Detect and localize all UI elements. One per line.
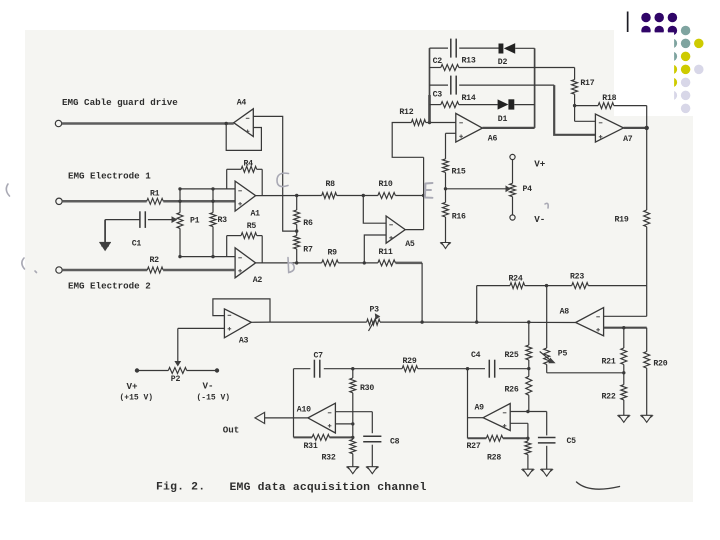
svg-text:EMG Cable guard drive: EMG Cable guard drive (62, 97, 178, 108)
svg-text:R7: R7 (303, 246, 313, 255)
svg-text:EMG Electrode 2: EMG Electrode 2 (68, 281, 151, 292)
svg-text:R18: R18 (602, 94, 616, 103)
svg-text:V+: V+ (127, 381, 139, 392)
svg-text:D1: D1 (498, 115, 508, 124)
svg-text:C1: C1 (132, 239, 142, 248)
svg-text:A9: A9 (475, 404, 485, 413)
svg-text:P4: P4 (523, 185, 533, 194)
svg-text:R12: R12 (399, 108, 413, 117)
svg-text:R26: R26 (505, 386, 519, 395)
svg-text:EMG data acquisition channel: EMG data acquisition channel (230, 482, 427, 494)
svg-text:R3: R3 (218, 216, 228, 225)
svg-text:R8: R8 (326, 180, 336, 189)
svg-text:P3: P3 (370, 306, 380, 315)
svg-text:R24: R24 (509, 275, 523, 284)
svg-text:R21: R21 (602, 357, 616, 366)
svg-text:R1: R1 (150, 189, 160, 198)
svg-text:R9: R9 (328, 249, 338, 258)
svg-text:R25: R25 (505, 351, 519, 360)
svg-text:R4: R4 (244, 160, 254, 169)
svg-text:R2: R2 (150, 256, 160, 265)
svg-text:A2: A2 (253, 276, 263, 285)
svg-text:A1: A1 (251, 210, 261, 219)
svg-text:R20: R20 (653, 360, 667, 369)
svg-text:(+15 V): (+15 V) (120, 394, 154, 403)
svg-text:C8: C8 (390, 437, 400, 446)
svg-text:P2: P2 (171, 375, 181, 384)
svg-text:V+: V+ (534, 159, 546, 170)
svg-text:R19: R19 (615, 216, 629, 225)
svg-text:A7: A7 (623, 135, 633, 144)
svg-text:R16: R16 (452, 213, 466, 222)
svg-text:A3: A3 (239, 337, 249, 346)
svg-text:C5: C5 (567, 437, 577, 446)
svg-text:R27: R27 (467, 442, 481, 451)
svg-text:C7: C7 (314, 351, 324, 360)
svg-text:R32: R32 (322, 454, 336, 463)
svg-text:R10: R10 (379, 180, 393, 189)
svg-text:C4: C4 (471, 351, 481, 360)
svg-text:R30: R30 (360, 384, 374, 393)
svg-text:R6: R6 (303, 219, 313, 228)
svg-text:R28: R28 (487, 454, 501, 463)
svg-text:R31: R31 (304, 442, 318, 451)
svg-text:Fig. 2.: Fig. 2. (156, 482, 205, 494)
svg-text:A4: A4 (237, 99, 247, 108)
svg-text:C3: C3 (433, 91, 443, 100)
svg-text:R13: R13 (462, 57, 476, 66)
svg-text:R11: R11 (379, 248, 393, 257)
svg-text:A8: A8 (560, 308, 570, 317)
svg-text:V-: V- (534, 214, 545, 225)
svg-text:A5: A5 (405, 240, 415, 249)
svg-text:R23: R23 (570, 273, 584, 282)
svg-text:EMG Electrode 1: EMG Electrode 1 (68, 171, 151, 182)
svg-text:C2: C2 (433, 57, 443, 66)
svg-text:D2: D2 (498, 58, 508, 67)
svg-text:P1: P1 (190, 217, 200, 226)
svg-text:A6: A6 (488, 135, 498, 144)
svg-text:V-: V- (203, 381, 214, 392)
svg-text:R22: R22 (602, 393, 616, 402)
svg-text:Out: Out (223, 425, 240, 436)
svg-text:R15: R15 (452, 167, 466, 176)
svg-text:P5: P5 (558, 350, 568, 359)
svg-text:R14: R14 (462, 94, 476, 103)
svg-text:R29: R29 (403, 357, 417, 366)
svg-text:R5: R5 (247, 222, 257, 231)
svg-text:A10: A10 (297, 406, 311, 415)
svg-text:R17: R17 (580, 79, 594, 88)
svg-text:(-15 V): (-15 V) (197, 394, 231, 403)
